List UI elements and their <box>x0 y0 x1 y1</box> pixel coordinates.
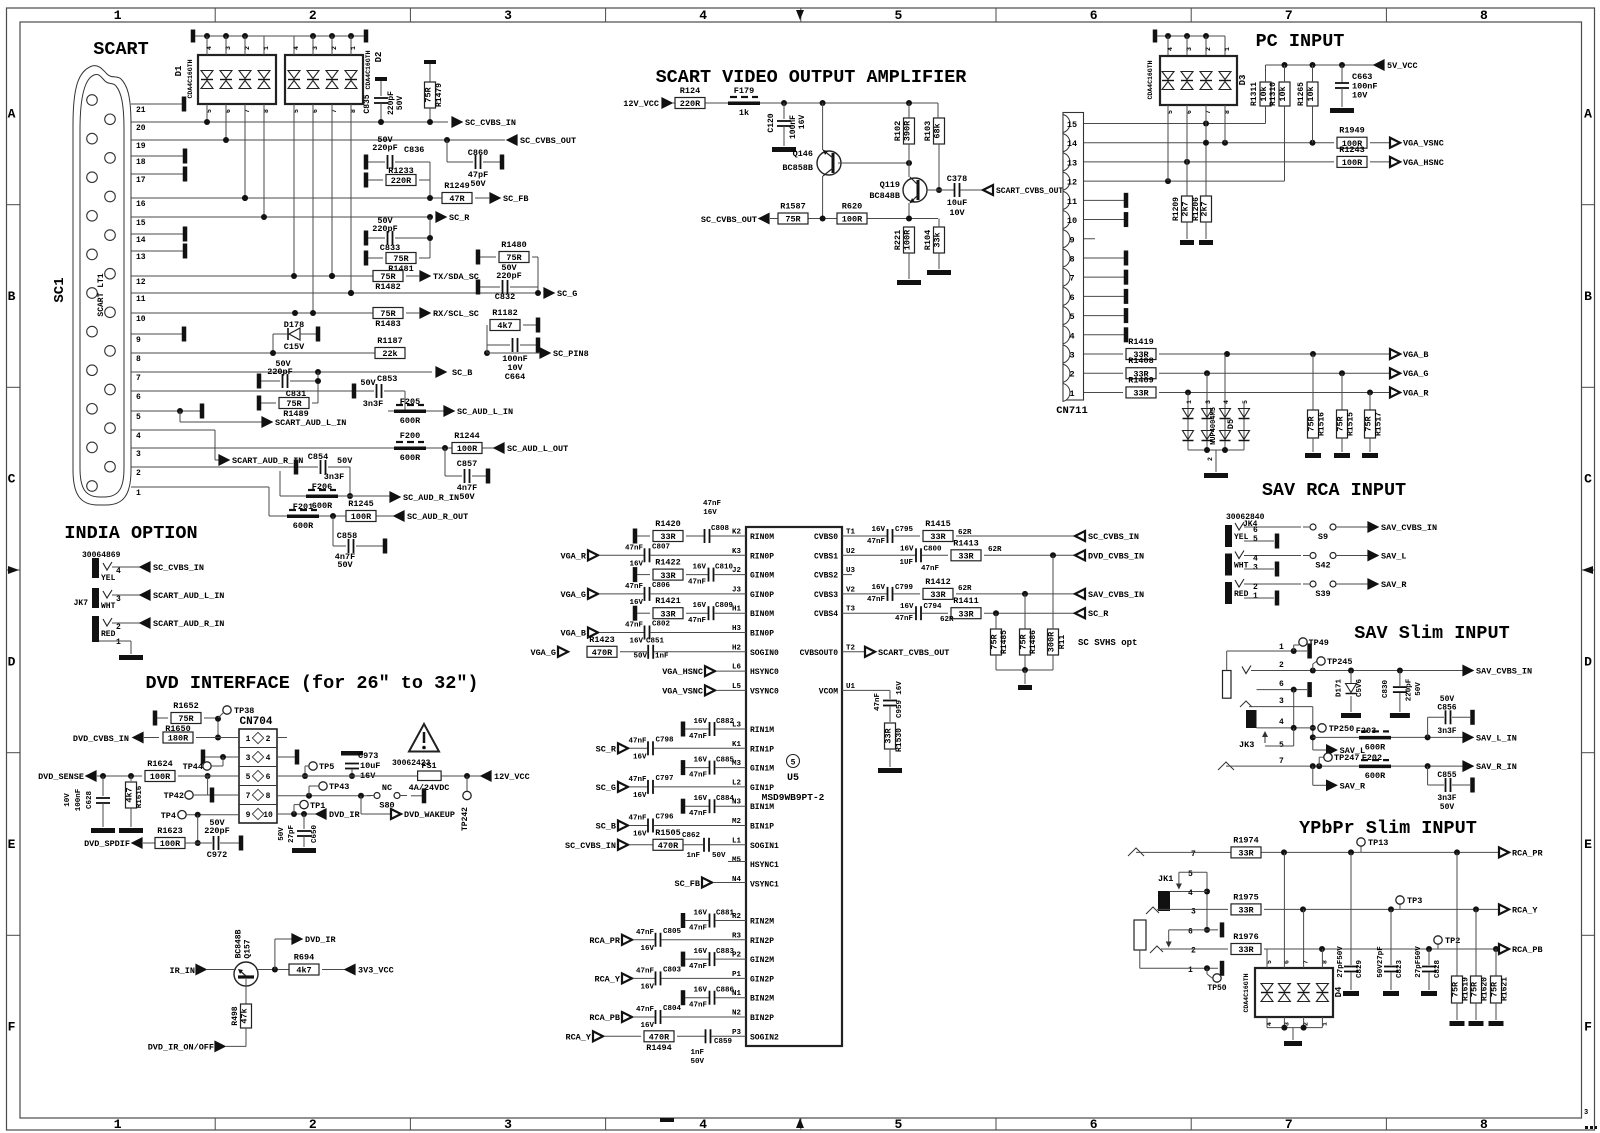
svg-text:6: 6 <box>1279 680 1284 689</box>
svg-text:16V: 16V <box>871 584 885 592</box>
svg-text:C664: C664 <box>505 372 525 382</box>
svg-text:10: 10 <box>263 811 273 820</box>
svg-text:C799: C799 <box>895 584 914 592</box>
svg-text:YPbPr Slim INPUT: YPbPr Slim INPUT <box>1299 818 1477 839</box>
svg-text:50V: 50V <box>633 653 647 661</box>
svg-text:2k7: 2k7 <box>1200 201 1210 216</box>
svg-text:SCART_AUD_L_IN: SCART_AUD_L_IN <box>275 418 346 428</box>
svg-text:BIN2P: BIN2P <box>750 1014 774 1023</box>
svg-text:220pF: 220pF <box>496 271 522 281</box>
svg-text:16V: 16V <box>629 638 643 646</box>
svg-text:47nF: 47nF <box>895 615 914 623</box>
svg-text:4: 4 <box>116 567 121 576</box>
svg-text:D171: D171 <box>1335 679 1343 698</box>
svg-text:E: E <box>8 837 16 852</box>
svg-text:1k: 1k <box>739 108 749 118</box>
svg-text:R1515: R1515 <box>1347 412 1356 436</box>
svg-text:15: 15 <box>136 219 146 228</box>
svg-text:50V: 50V <box>337 560 353 570</box>
svg-text:9: 9 <box>1069 235 1074 245</box>
svg-text:GIN0P: GIN0P <box>750 591 774 600</box>
svg-text:47nF: 47nF <box>688 617 707 625</box>
svg-text:TP3: TP3 <box>1407 896 1422 906</box>
svg-text:K3: K3 <box>732 548 742 556</box>
svg-text:CVBS0: CVBS0 <box>814 533 838 542</box>
svg-text:SOGIN2: SOGIN2 <box>750 1033 779 1042</box>
svg-text:CN711: CN711 <box>1056 405 1088 417</box>
svg-text:16V: 16V <box>900 603 914 611</box>
svg-text:2: 2 <box>1205 47 1212 51</box>
svg-text:3n3F: 3n3F <box>1437 727 1456 736</box>
svg-text:C836: C836 <box>404 145 424 155</box>
svg-text:A: A <box>8 106 16 121</box>
svg-text:F179: F179 <box>734 86 754 96</box>
svg-text:C862: C862 <box>682 832 701 840</box>
svg-text:50V: 50V <box>470 179 486 189</box>
svg-text:600R: 600R <box>1365 771 1386 781</box>
svg-text:D5: D5 <box>1226 419 1236 429</box>
svg-text:33R: 33R <box>958 609 974 619</box>
svg-text:470R: 470R <box>649 1033 670 1043</box>
svg-text:JK7: JK7 <box>74 599 89 608</box>
svg-text:R1409: R1409 <box>1128 375 1154 385</box>
svg-text:1: 1 <box>114 8 122 23</box>
svg-text:R1244: R1244 <box>454 431 480 441</box>
svg-text:VGA_G: VGA_G <box>560 590 586 600</box>
svg-text:33R: 33R <box>1238 906 1254 916</box>
svg-text:V2: V2 <box>846 586 856 594</box>
svg-text:68k: 68k <box>933 123 943 138</box>
svg-text:SC_CVBS_IN: SC_CVBS_IN <box>565 841 616 851</box>
svg-text:100R: 100R <box>842 215 863 225</box>
svg-text:50V: 50V <box>360 378 376 388</box>
svg-text:SC_CVBS_IN: SC_CVBS_IN <box>1088 532 1139 542</box>
svg-text:R1530: R1530 <box>895 728 904 752</box>
svg-text:33R: 33R <box>930 532 946 542</box>
svg-text:600R: 600R <box>293 521 314 531</box>
svg-text:D2: D2 <box>374 52 384 63</box>
svg-text:B: B <box>8 289 16 304</box>
svg-text:7: 7 <box>136 374 141 383</box>
svg-text:RCA_Y: RCA_Y <box>594 974 620 984</box>
svg-text:4: 4 <box>699 1117 707 1132</box>
svg-text:CN704: CN704 <box>239 716 272 728</box>
svg-text:50V: 50V <box>1440 803 1455 812</box>
svg-text:16V: 16V <box>896 681 904 695</box>
svg-text:SAV_R: SAV_R <box>1381 580 1407 590</box>
svg-text:C810: C810 <box>715 564 734 572</box>
svg-text:R1412: R1412 <box>925 577 951 587</box>
svg-text:C797: C797 <box>656 775 674 783</box>
svg-text:RCA_PR: RCA_PR <box>589 936 621 946</box>
svg-text:R1975: R1975 <box>1233 892 1259 902</box>
svg-text:50V: 50V <box>278 827 286 841</box>
svg-text:1: 1 <box>136 489 141 498</box>
svg-text:SC_AUD_L_OUT: SC_AUD_L_OUT <box>507 444 568 454</box>
svg-text:SC_G: SC_G <box>596 783 616 793</box>
svg-text:SAV Slim INPUT: SAV Slim INPUT <box>1354 623 1509 644</box>
svg-text:CDA4C16GTH: CDA4C16GTH <box>1147 60 1154 99</box>
svg-text:7: 7 <box>1285 1117 1293 1132</box>
svg-text:VSYNC0: VSYNC0 <box>750 687 779 696</box>
svg-text:5: 5 <box>1242 400 1249 404</box>
svg-text:C973: C973 <box>358 751 378 761</box>
svg-text:10: 10 <box>136 315 146 324</box>
svg-text:C832: C832 <box>495 292 515 302</box>
svg-text:470R: 470R <box>592 648 613 658</box>
svg-text:50V27pF: 50V27pF <box>1377 946 1385 978</box>
svg-text:R1494: R1494 <box>646 1043 672 1053</box>
svg-text:100R: 100R <box>351 512 372 522</box>
svg-text:SAV_CVBS_IN: SAV_CVBS_IN <box>1381 523 1437 533</box>
svg-text:100R: 100R <box>457 444 478 454</box>
svg-text:75R: 75R <box>1336 415 1346 431</box>
svg-text:C857: C857 <box>457 459 477 469</box>
svg-text:16V: 16V <box>693 910 707 918</box>
svg-text:50V: 50V <box>377 216 393 226</box>
svg-text:A: A <box>1584 106 1592 121</box>
svg-text:TP5: TP5 <box>319 762 334 772</box>
svg-text:SC_AUD_R_IN: SC_AUD_R_IN <box>403 493 459 503</box>
svg-text:SC_B: SC_B <box>596 822 616 832</box>
svg-text:33R: 33R <box>884 727 894 743</box>
svg-text:VGA_B: VGA_B <box>560 629 586 639</box>
svg-text:C15V: C15V <box>284 342 305 352</box>
svg-text:R1415: R1415 <box>925 519 951 529</box>
svg-text:300R: 300R <box>1047 631 1057 652</box>
svg-text:1: 1 <box>114 1117 122 1132</box>
svg-text:SOGIN0: SOGIN0 <box>750 649 779 658</box>
svg-text:BIN2M: BIN2M <box>750 995 774 1004</box>
svg-text:F206: F206 <box>312 482 332 492</box>
svg-text:5: 5 <box>894 8 902 23</box>
svg-text:33R: 33R <box>660 571 676 581</box>
svg-text:DVD_SPDIF: DVD_SPDIF <box>84 839 130 849</box>
svg-text:47nF: 47nF <box>688 579 707 587</box>
svg-text:R1485: R1485 <box>1000 630 1009 654</box>
svg-text:33R: 33R <box>1238 945 1254 955</box>
svg-text:C804: C804 <box>663 1005 682 1013</box>
svg-text:C829: C829 <box>1356 960 1364 979</box>
svg-text:TP242: TP242 <box>461 807 470 831</box>
svg-text:10V: 10V <box>64 793 72 807</box>
svg-text:600R: 600R <box>400 416 421 426</box>
svg-text:SC_FB: SC_FB <box>503 194 529 204</box>
svg-text:22k: 22k <box>382 349 397 359</box>
svg-text:27pF: 27pF <box>288 825 296 844</box>
svg-text:N2: N2 <box>732 1010 742 1018</box>
svg-text:R1422: R1422 <box>655 558 681 568</box>
svg-text:SCART_AUD_L_IN: SCART_AUD_L_IN <box>153 591 224 601</box>
svg-text:U3: U3 <box>846 567 856 575</box>
svg-text:CVBS1: CVBS1 <box>814 552 838 561</box>
svg-text:16V: 16V <box>693 795 707 803</box>
svg-text:D178: D178 <box>284 320 304 330</box>
svg-text:4: 4 <box>293 46 300 50</box>
svg-text:R1974: R1974 <box>1233 835 1259 845</box>
svg-text:18: 18 <box>136 158 146 167</box>
svg-text:33R: 33R <box>1238 849 1254 859</box>
svg-text:DVD_WAKEUP: DVD_WAKEUP <box>404 810 455 820</box>
svg-text:DVD INTERFACE (for 26" to 32"): DVD INTERFACE (for 26" to 32") <box>145 673 478 694</box>
svg-text:2: 2 <box>1207 457 1214 461</box>
svg-text:SAV_L_IN: SAV_L_IN <box>1476 733 1517 743</box>
svg-text:HSYNC1: HSYNC1 <box>750 861 779 870</box>
svg-text:75R: 75R <box>393 254 409 264</box>
svg-text:16V: 16V <box>798 115 807 130</box>
svg-text:3: 3 <box>1205 400 1212 404</box>
svg-text:10uF: 10uF <box>360 761 380 771</box>
svg-text:16V: 16V <box>633 753 647 761</box>
svg-text:47nF: 47nF <box>689 925 708 933</box>
svg-text:NUP4004M5: NUP4004M5 <box>1210 407 1218 445</box>
svg-text:L6: L6 <box>732 664 742 672</box>
svg-text:BIN0M: BIN0M <box>750 610 774 619</box>
svg-text:4: 4 <box>1188 889 1193 898</box>
svg-text:33R: 33R <box>930 590 946 600</box>
svg-text:62R: 62R <box>958 585 972 593</box>
svg-text:R3: R3 <box>732 932 742 940</box>
svg-text:RCA_PB: RCA_PB <box>589 1013 620 1023</box>
svg-text:CDA4C16GTH: CDA4C16GTH <box>1243 973 1250 1012</box>
svg-text:11: 11 <box>1067 197 1077 207</box>
svg-text:SC_R: SC_R <box>596 744 617 754</box>
svg-text:16V: 16V <box>692 602 706 610</box>
svg-text:75R: 75R <box>424 86 434 102</box>
svg-text:47nF: 47nF <box>628 776 647 784</box>
svg-text:VGA_R: VGA_R <box>560 551 586 561</box>
svg-text:DVD_IR: DVD_IR <box>329 810 361 820</box>
svg-text:TP43: TP43 <box>329 782 349 792</box>
svg-text:RIN0M: RIN0M <box>750 533 774 542</box>
svg-text:C886: C886 <box>716 987 735 995</box>
svg-text:R1505: R1505 <box>655 828 681 838</box>
svg-text:100R: 100R <box>150 772 171 782</box>
svg-text:220R: 220R <box>680 99 701 109</box>
svg-text:R1976: R1976 <box>1233 932 1259 942</box>
svg-text:R1311: R1311 <box>1250 82 1259 106</box>
svg-text:47nF: 47nF <box>636 967 655 975</box>
svg-text:HSYNC0: HSYNC0 <box>750 668 779 677</box>
svg-text:RX/SCL_SC: RX/SCL_SC <box>433 309 479 319</box>
svg-text:47nF: 47nF <box>689 733 708 741</box>
svg-text:Q119: Q119 <box>880 180 900 190</box>
svg-text:1: 1 <box>1186 400 1193 404</box>
svg-text:C650: C650 <box>311 825 319 844</box>
svg-text:VGA_HSNC: VGA_HSNC <box>1403 158 1444 168</box>
svg-text:RIN1M: RIN1M <box>750 726 774 735</box>
svg-text:220R: 220R <box>391 176 412 186</box>
svg-text:SAV_CVBS_IN: SAV_CVBS_IN <box>1088 590 1144 600</box>
svg-text:390R: 390R <box>903 120 913 141</box>
svg-text:2: 2 <box>1191 947 1196 956</box>
svg-text:10k: 10k <box>1259 86 1269 101</box>
svg-text:10k: 10k <box>1278 86 1288 101</box>
svg-text:TP42: TP42 <box>164 791 184 801</box>
svg-text:R1483: R1483 <box>375 319 401 329</box>
svg-text:4: 4 <box>266 754 271 763</box>
svg-text:47nF: 47nF <box>867 596 886 604</box>
svg-text:47nF: 47nF <box>628 815 647 823</box>
svg-text:4: 4 <box>1223 400 1230 404</box>
svg-text:R1411: R1411 <box>953 596 979 606</box>
svg-text:VGA_VSNC: VGA_VSNC <box>662 687 703 697</box>
svg-text:6: 6 <box>1090 8 1098 23</box>
svg-text:D1: D1 <box>174 65 184 76</box>
svg-text:1: 1 <box>1224 47 1231 51</box>
svg-text:1: 1 <box>1253 592 1258 601</box>
svg-text:R1480: R1480 <box>501 240 527 250</box>
svg-text:4k7: 4k7 <box>296 966 311 976</box>
svg-text:12: 12 <box>1067 178 1077 188</box>
svg-text:6: 6 <box>136 393 141 402</box>
svg-text:C855: C855 <box>1437 771 1456 780</box>
svg-text:50V: 50V <box>459 492 475 502</box>
svg-text:C823: C823 <box>1396 960 1404 979</box>
svg-text:7: 7 <box>1279 757 1284 766</box>
svg-text:3n3F: 3n3F <box>324 472 344 482</box>
svg-text:2: 2 <box>244 46 251 50</box>
svg-text:F: F <box>1584 1020 1592 1035</box>
svg-text:1nF: 1nF <box>655 653 669 661</box>
svg-text:R620: R620 <box>842 202 862 212</box>
svg-text:3: 3 <box>312 46 319 50</box>
svg-text:CVBS2: CVBS2 <box>814 572 838 581</box>
svg-text:1: 1 <box>116 638 121 647</box>
svg-text:U2: U2 <box>846 548 856 556</box>
svg-text:10k: 10k <box>1306 86 1316 101</box>
svg-text:4: 4 <box>1069 331 1074 341</box>
svg-text:R1243: R1243 <box>1339 145 1365 155</box>
svg-text:R1408: R1408 <box>1128 356 1154 366</box>
svg-text:12V_VCC: 12V_VCC <box>494 772 530 782</box>
svg-text:100R: 100R <box>160 839 181 849</box>
svg-text:R694: R694 <box>294 953 314 963</box>
svg-text:20: 20 <box>136 124 146 133</box>
svg-text:SCART: SCART <box>93 39 149 60</box>
svg-text:4: 4 <box>1279 718 1284 727</box>
svg-text:4k7: 4k7 <box>125 787 135 802</box>
svg-text:VGA_HSNC: VGA_HSNC <box>662 667 703 677</box>
svg-text:11: 11 <box>136 295 146 304</box>
svg-text:C802: C802 <box>652 621 671 629</box>
svg-text:C5V6: C5V6 <box>1356 679 1364 698</box>
svg-text:C808: C808 <box>711 525 730 533</box>
svg-text:RCA_PB: RCA_PB <box>1512 945 1543 955</box>
svg-text:C800: C800 <box>924 545 943 553</box>
svg-text:BIN0P: BIN0P <box>750 630 774 639</box>
svg-text:16V: 16V <box>693 718 707 726</box>
svg-text:47nF: 47nF <box>689 963 708 971</box>
svg-text:SAV_R_IN: SAV_R_IN <box>1476 762 1517 772</box>
svg-text:BIN1P: BIN1P <box>750 823 774 832</box>
svg-text:R1233: R1233 <box>388 166 414 176</box>
svg-text:SOGIN1: SOGIN1 <box>750 842 779 851</box>
svg-text:15: 15 <box>1067 120 1077 130</box>
svg-text:R124: R124 <box>680 86 700 96</box>
svg-text:4: 4 <box>206 46 213 50</box>
svg-text:SAV_R: SAV_R <box>1340 781 1366 791</box>
svg-text:SAV_CVBS_IN: SAV_CVBS_IN <box>1476 667 1532 677</box>
svg-text:16V: 16V <box>640 1022 654 1030</box>
svg-text:75R: 75R <box>286 399 302 409</box>
svg-text:1nF: 1nF <box>690 1049 704 1057</box>
svg-text:47nF: 47nF <box>689 772 708 780</box>
svg-text:6: 6 <box>1090 1117 1098 1132</box>
svg-text:50V: 50V <box>712 852 726 860</box>
svg-text:CVBSOUT0: CVBSOUT0 <box>800 649 839 658</box>
svg-text:R1482: R1482 <box>375 282 401 292</box>
svg-text:H3: H3 <box>732 625 742 633</box>
svg-text:JK1: JK1 <box>1158 874 1173 884</box>
svg-text:J3: J3 <box>732 586 742 594</box>
svg-text:SCART_AUD_R_IN: SCART_AUD_R_IN <box>232 456 303 466</box>
svg-text:47nF: 47nF <box>625 544 644 552</box>
svg-text:R1479: R1479 <box>435 83 444 107</box>
svg-text:7: 7 <box>1069 274 1074 284</box>
svg-text:220pF: 220pF <box>1406 678 1414 701</box>
svg-text:75R: 75R <box>1307 415 1317 431</box>
svg-text:VSYNC1: VSYNC1 <box>750 880 779 889</box>
svg-text:33R: 33R <box>958 552 974 562</box>
svg-text:DVD_IR: DVD_IR <box>305 935 337 945</box>
svg-text:10uF: 10uF <box>947 198 967 208</box>
svg-text:75R: 75R <box>1019 633 1029 649</box>
svg-text:19: 19 <box>136 142 146 151</box>
svg-text:47nF: 47nF <box>689 810 708 818</box>
svg-text:SC1: SC1 <box>52 277 68 302</box>
svg-text:R1517: R1517 <box>1375 412 1384 436</box>
svg-text:U1: U1 <box>846 683 856 691</box>
svg-text:75R: 75R <box>178 714 194 724</box>
svg-text:100R: 100R <box>903 229 913 250</box>
svg-text:K2: K2 <box>732 529 742 537</box>
svg-text:50V: 50V <box>377 135 393 145</box>
svg-text:14: 14 <box>136 236 146 245</box>
svg-text:47nF: 47nF <box>625 622 644 630</box>
svg-text:C858: C858 <box>337 531 357 541</box>
svg-text:50V: 50V <box>337 456 353 466</box>
svg-text:75R: 75R <box>506 253 522 263</box>
svg-text:YEL: YEL <box>101 574 116 583</box>
svg-text:GIN2M: GIN2M <box>750 956 774 965</box>
svg-text:220pF: 220pF <box>387 91 396 115</box>
svg-text:8: 8 <box>1480 8 1488 23</box>
svg-text:2: 2 <box>331 46 338 50</box>
svg-text:SC_R: SC_R <box>449 213 470 223</box>
svg-text:C: C <box>1584 472 1592 487</box>
svg-text:16: 16 <box>136 200 146 209</box>
svg-text:IR_IN: IR_IN <box>169 966 195 976</box>
svg-text:C835: C835 <box>363 94 372 113</box>
svg-text:C663: C663 <box>1352 72 1372 82</box>
svg-text:GIN1M: GIN1M <box>750 765 774 774</box>
svg-text:180R: 180R <box>168 734 189 744</box>
svg-text:C883: C883 <box>716 948 735 956</box>
svg-text:GIN0M: GIN0M <box>750 572 774 581</box>
svg-text:F: F <box>8 1020 16 1035</box>
svg-text:R1206: R1206 <box>1192 197 1201 221</box>
svg-text:3: 3 <box>116 595 121 604</box>
svg-text:C833: C833 <box>380 243 400 253</box>
svg-text:R1486: R1486 <box>1029 630 1038 654</box>
svg-text:75R: 75R <box>380 272 396 282</box>
svg-text:4: 4 <box>699 8 707 23</box>
svg-text:C884: C884 <box>716 795 735 803</box>
svg-text:C828: C828 <box>1434 960 1442 979</box>
svg-text:6: 6 <box>1188 928 1193 937</box>
svg-text:C796: C796 <box>656 814 675 822</box>
